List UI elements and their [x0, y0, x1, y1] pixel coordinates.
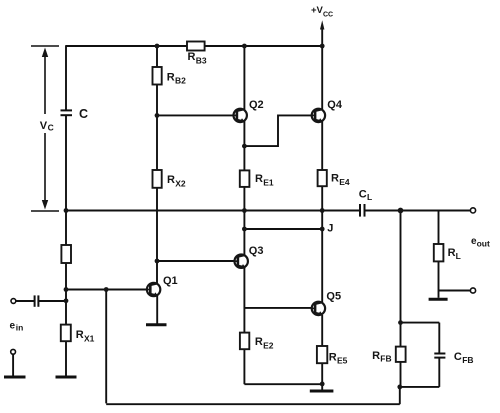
wire Q4 emitter down through RE4, rail, J-line to Q5 — [321, 121, 323, 303]
svg-text:+V: +V — [311, 5, 324, 16]
node J line left junction — [242, 227, 247, 232]
svg-text:R: R — [448, 247, 456, 259]
wire Q1 base line — [66, 289, 147, 291]
wire RL bottom to ground — [438, 291, 440, 298]
svg-text:C: C — [454, 351, 462, 363]
svg-text:FB: FB — [380, 354, 391, 364]
svg-text:R: R — [255, 173, 263, 185]
resistor RL — [434, 244, 444, 261]
ground below Q1 — [146, 323, 167, 326]
resistor RE2 — [240, 333, 249, 350]
resistor RE5 — [317, 346, 327, 363]
wire CFB bottom stem — [438, 358, 440, 387]
wire input from terminal to cap — [16, 300, 34, 302]
svg-text:in: in — [16, 322, 24, 332]
transistor Q1 — [147, 283, 161, 296]
svg-text:L: L — [367, 192, 372, 202]
wire below RL — [438, 261, 440, 290]
wire output rail down to RFB — [400, 211, 402, 347]
svg-text:Q4: Q4 — [327, 99, 343, 111]
node mid rail / RE1 branch junction — [242, 208, 247, 213]
svg-text:E1: E1 — [263, 177, 274, 187]
wire mid output rail left of CL — [66, 210, 360, 212]
resistor RX1 — [61, 325, 71, 342]
svg-text:B2: B2 — [175, 76, 186, 86]
wire left column mid rail to resistor — [65, 211, 67, 246]
ground below RL — [429, 298, 448, 301]
transistor Q4 — [312, 109, 326, 122]
svg-text:Q5: Q5 — [326, 291, 341, 303]
transistor Q5 — [312, 302, 326, 315]
svg-text:E5: E5 — [337, 355, 348, 365]
node mid rail left junction — [64, 208, 69, 213]
svg-text:CC: CC — [323, 12, 333, 19]
wire Q2 base line — [157, 114, 234, 116]
svg-text:R: R — [76, 329, 84, 341]
wire Q1 emitter — [156, 295, 158, 324]
wire feedback up to RFB bottom rail — [399, 387, 401, 404]
svg-text:Q1: Q1 — [163, 275, 178, 287]
node RB2 / Q2 base junction — [155, 113, 160, 118]
node mid rail / RE4 branch junction — [320, 208, 325, 213]
wire +Vcc stem — [321, 27, 323, 47]
node RFB / CFB bottom junction — [397, 385, 402, 390]
svg-text:R: R — [167, 71, 175, 83]
svg-text:R: R — [331, 173, 339, 185]
node Vc dimension arrow — [31, 46, 59, 211]
svg-text:X2: X2 — [175, 179, 186, 189]
svg-text:L: L — [456, 251, 461, 261]
wire Q4 base step from Q2 emitter — [244, 115, 312, 146]
svg-text:e: e — [10, 320, 16, 331]
svg-text:Q3: Q3 — [249, 245, 264, 257]
node Q1 collector / Q3 base junction — [155, 259, 160, 264]
wire top supply rail — [66, 45, 322, 47]
wire Q5 emitter to RE5 — [321, 315, 323, 346]
resistor RB2 — [153, 67, 162, 85]
wire Q3 base line — [157, 260, 235, 262]
ground below RX1 — [56, 376, 77, 379]
svg-text:R: R — [188, 51, 196, 63]
svg-text:V: V — [40, 120, 48, 132]
wire RE2-RE5 bottom link — [244, 383, 322, 385]
node mid rail / RFB branch junction — [398, 208, 404, 214]
wire below RX1 to ground — [65, 341, 67, 376]
svg-text:FB: FB — [462, 355, 473, 365]
svg-text:E2: E2 — [263, 341, 274, 351]
wire Q3 emitter down to RE2 — [243, 267, 245, 333]
wire RB2/RX2 column down to Q1 collector — [156, 46, 158, 284]
wire mid output rail right of CL — [365, 210, 471, 212]
ground below ein terminal — [4, 376, 26, 379]
wire below RE2 to bottom link — [243, 349, 245, 384]
wire feedback bottom run — [106, 403, 400, 405]
node Q2 emitter / Q4 base junction — [242, 144, 247, 149]
svg-text:R: R — [167, 174, 175, 186]
capacitor CL — [360, 204, 365, 217]
svg-text:J: J — [327, 222, 333, 234]
wire RFB/CFB bottom rail — [400, 386, 440, 388]
wire RL bottom to output terminal — [439, 290, 471, 292]
resistor RE4 — [318, 170, 327, 186]
node top rail / Q2 collector junction — [242, 44, 247, 49]
node RFB / CFB top junction — [398, 320, 403, 325]
wire below RFB — [400, 362, 402, 387]
svg-text:C: C — [359, 188, 367, 200]
capacitor C — [61, 110, 73, 115]
wire left vertical upper (to cap C) — [65, 45, 67, 110]
node Q1 base / feedback junction — [104, 287, 109, 292]
capacitor input coupling — [35, 295, 39, 306]
wire CFB top stem — [438, 323, 440, 354]
wire input cap to node — [39, 300, 66, 302]
transistor Q3 — [234, 255, 248, 268]
wire Q2 emitter down through RE1, rail, J-line to Q3 — [243, 121, 245, 256]
svg-text:E4: E4 — [339, 177, 350, 187]
node top rail / RB2 junction — [155, 44, 160, 49]
svg-text:R: R — [329, 351, 337, 363]
wire Q4 collector — [321, 46, 323, 110]
svg-text:C: C — [48, 122, 54, 132]
resistor RB3 — [187, 42, 205, 51]
wire feedback vertical from Q1 base — [105, 290, 107, 404]
wire J line — [244, 228, 322, 230]
wire left vertical below cap C to mid rail — [65, 116, 67, 211]
node input cap junction — [64, 298, 69, 303]
resistor RX2 — [153, 170, 162, 188]
wire RFB/CFB top rail — [401, 322, 440, 324]
svg-text:R: R — [372, 350, 380, 362]
resistor RFB — [396, 347, 406, 362]
svg-text:out: out — [477, 238, 490, 248]
svg-text:R: R — [255, 336, 263, 348]
wire RL stem from rail — [438, 211, 440, 245]
node Q1 base / bias junction — [64, 287, 69, 292]
svg-text:X1: X1 — [84, 333, 95, 343]
terminal eout top — [470, 208, 475, 213]
wire below RE5 to ground — [321, 363, 323, 390]
capacitor CFB — [434, 354, 445, 358]
wire Q5 base line — [244, 307, 312, 309]
svg-text:C: C — [79, 107, 88, 121]
terminal eout bottom — [470, 288, 475, 293]
wire ein bottom terminal to ground — [12, 354, 14, 376]
node top rail / Vcc junction — [320, 44, 325, 49]
node J line right junction — [320, 227, 325, 232]
terminal ein bottom — [11, 349, 16, 354]
svg-text:Q2: Q2 — [249, 99, 264, 111]
wire left column resistor to RX1 — [65, 263, 67, 325]
terminal ein top — [11, 299, 16, 304]
ground below RE5 — [310, 390, 334, 393]
wire Q2 collector — [243, 46, 245, 110]
resistor unlabeled left — [61, 245, 71, 263]
node RE5 / ground junction — [320, 382, 325, 387]
svg-text:B3: B3 — [196, 56, 207, 66]
transistor Q2 — [233, 109, 247, 122]
resistor RE1 — [240, 170, 250, 187]
